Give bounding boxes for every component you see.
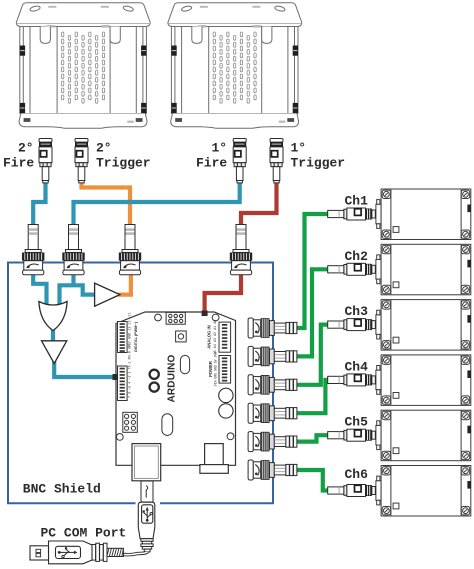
svg-text:Ch5: Ch5 xyxy=(345,415,369,430)
shield jack J3 xyxy=(119,225,141,275)
plug P3: 1deg Fire cable plug xyxy=(233,139,246,183)
Arduino power jack xyxy=(205,444,224,466)
svg-text:BNC Shield: BNC Shield xyxy=(23,482,101,497)
Arduino power header xyxy=(219,356,231,384)
Arduino Uno board U4 xyxy=(113,311,236,481)
OR gate U1 xyxy=(39,302,67,331)
plug: Ch3 cable plug xyxy=(328,319,376,331)
module M5 (Ch5) xyxy=(376,410,471,461)
module M3 (Ch3) xyxy=(376,300,471,351)
Arduino reset button xyxy=(176,331,187,342)
Arduino mounting holes xyxy=(155,314,162,321)
Arduino analog in header xyxy=(219,322,231,352)
svg-text:Ch6: Ch6 xyxy=(345,467,369,482)
plug: Ch1 cable plug xyxy=(328,208,376,220)
wire: green shield jack to Ch2 plug xyxy=(295,269,330,356)
module M1 (Ch1) xyxy=(376,189,471,240)
plug P2: 2deg Trigger cable plug xyxy=(75,139,88,183)
svg-text:1°: 1° xyxy=(291,141,307,156)
Arduino USB socket xyxy=(132,444,161,481)
wire: orange buffer output to jack J3 xyxy=(118,271,131,295)
shield jack J2 xyxy=(62,225,84,275)
plug P4: 1deg Trigger cable plug xyxy=(270,139,283,183)
svg-text:Trigger: Trigger xyxy=(291,156,346,171)
plug: Ch5 cable plug xyxy=(328,429,376,441)
wire: teal 2deg Fire plug to shield jack J1 xyxy=(33,180,45,226)
Arduino crystal xyxy=(180,355,189,373)
USB A plug body xyxy=(49,541,93,564)
wire: green shield jack to Ch5 plug xyxy=(295,435,330,441)
USB B plug body xyxy=(138,502,155,539)
Arduino digital header (pins 8-13) xyxy=(118,322,128,353)
svg-text:1°: 1° xyxy=(212,141,228,156)
USB cable ferrite xyxy=(106,548,124,556)
wire: red 1deg Trigger plug to shield jack J4 xyxy=(241,180,277,226)
svg-text:Ch1: Ch1 xyxy=(345,194,369,209)
plug: Ch4 cable plug xyxy=(328,374,376,386)
shield jack J10 (Ch6 out) xyxy=(248,460,297,480)
Arduino capacitor C1 xyxy=(219,388,233,402)
svg-text:Ch4: Ch4 xyxy=(345,359,369,374)
plug P1: 2deg Fire cable plug xyxy=(39,139,52,183)
svg-text:ARDUINO: ARDUINO xyxy=(166,354,177,402)
USB B plug neck xyxy=(141,481,153,502)
wire: teal 1deg Fire plug to shield jack J2 xyxy=(74,180,240,226)
Arduino digital header (pins 0-7) xyxy=(118,366,128,401)
svg-text:DIGITAL (PWM~): DIGITAL (PWM~) xyxy=(134,321,138,352)
USB cable xyxy=(123,552,147,555)
svg-text:Fire: Fire xyxy=(196,156,227,171)
module M2 (Ch2) xyxy=(376,244,471,294)
Arduino infinity logo xyxy=(150,370,159,379)
plug: Ch6 cable plug xyxy=(328,485,376,497)
svg-text:2°: 2° xyxy=(96,141,112,156)
wire: teal OR gate output to inverter xyxy=(51,327,55,343)
shield jack J6 (Ch2 out) xyxy=(248,346,297,366)
shield jack J5 (Ch1 out) xyxy=(248,318,297,338)
wire: green shield jack to Ch6 plug xyxy=(295,470,330,491)
wire: teal jack J1 to OR gate input A xyxy=(33,272,46,306)
USB A plug metal tip xyxy=(30,546,49,560)
wire: teal jack J2 to OR gate input B and buffer input xyxy=(57,272,96,306)
shield jack J1 xyxy=(22,225,44,275)
pin stub: red wire at board top xyxy=(202,311,208,317)
svg-text:ANALOG IN: ANALOG IN xyxy=(207,325,212,349)
module M6 (Ch6) xyxy=(376,466,471,517)
plug: Ch2 cable plug xyxy=(328,263,376,275)
Arduino capacitor C2 xyxy=(219,404,233,418)
shield jack J7 (Ch3 out) xyxy=(248,375,297,395)
wire: orange 2deg Trigger plug to shield jack J3 xyxy=(82,180,131,226)
svg-text:Ch2: Ch2 xyxy=(345,249,369,264)
module M4 (Ch4) xyxy=(376,355,471,406)
buffer U2 (right-pointing) xyxy=(95,283,120,306)
Arduino lower stadium part xyxy=(162,414,173,436)
BNC Shield enclosure box (blue) xyxy=(8,263,273,504)
shield jack J8 (Ch4 out) xyxy=(248,403,297,423)
svg-text:A5 A4 A3 A2 A1 A0: A5 A4 A3 A2 A1 A0 xyxy=(214,320,218,355)
Arduino ICSP header xyxy=(166,312,185,324)
device: primary stimulator (top-right) xyxy=(168,3,302,129)
USB B plug strain relief ribs xyxy=(141,539,153,549)
svg-text:VIN GND GND 5V 3V3: VIN GND GND 5V 3V3 xyxy=(214,352,218,387)
svg-text:PC COM Port: PC COM Port xyxy=(41,526,127,541)
shield jack J4 xyxy=(230,225,252,275)
shield jack J9 (Ch5 out) xyxy=(248,432,297,452)
device: secondary stimulator (top-left) xyxy=(16,3,150,129)
svg-text:2°: 2° xyxy=(18,141,34,156)
svg-text:7 6 ~5 4 ~3 2 TX→1 RX←0: 7 6 ~5 4 ~3 2 TX→1 RX←0 xyxy=(129,351,133,398)
wire: teal inverter output to Arduino pin xyxy=(54,361,116,377)
pin stub: teal wire at board edge xyxy=(113,374,119,380)
inverter U3 (down-pointing) xyxy=(42,341,67,364)
svg-text:POWER: POWER xyxy=(208,361,213,377)
wire: green shield jack to Ch3 plug xyxy=(295,325,330,385)
svg-text:Ch3: Ch3 xyxy=(345,304,369,319)
Arduino 2x3 pin group xyxy=(123,412,138,432)
wire: green shield jack to Ch4 plug xyxy=(295,380,330,413)
wire: red jack J4 to Arduino pin xyxy=(205,272,241,314)
USB trident icon (B plug) xyxy=(144,509,151,521)
USB A plug strain ribs xyxy=(92,543,107,561)
svg-text:Trigger: Trigger xyxy=(96,156,151,171)
svg-text:AREF GND 13 12 ~11: AREF GND 13 12 ~11 xyxy=(129,312,133,349)
wire: green shield jack to Ch1 plug xyxy=(295,214,330,328)
svg-text:Fire: Fire xyxy=(3,156,34,171)
USB trident icon (A plug) xyxy=(60,549,75,555)
